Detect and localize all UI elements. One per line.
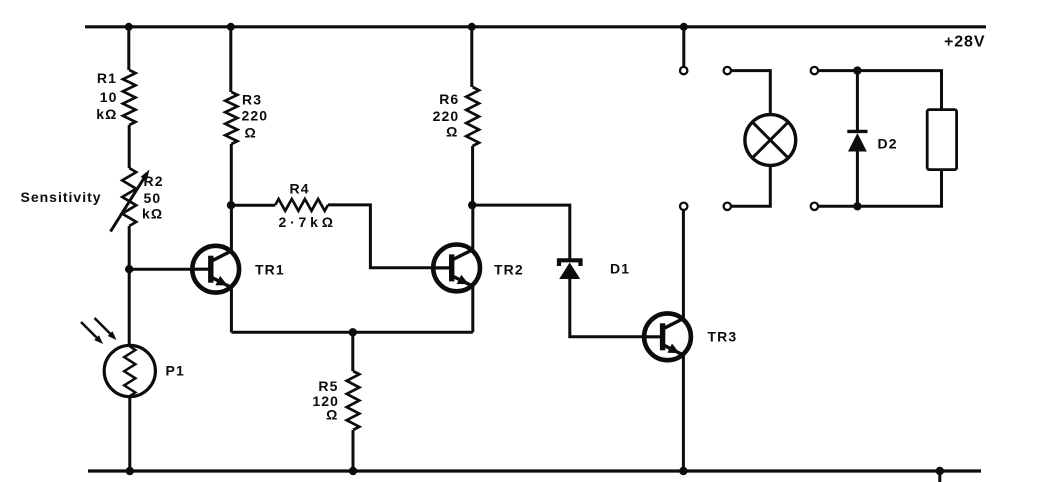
wire R2 to P1, node at TR1 base	[128, 226, 131, 346]
transistor TR1 collector lead	[212, 251, 231, 261]
wire emitter bus TR1-TR2	[231, 331, 472, 334]
svg-text:kΩ: kΩ	[142, 206, 163, 222]
junction R6/TR2-collector/D1	[468, 201, 476, 209]
wire R5 to bottom rail	[352, 430, 355, 471]
diode D2 cathode bar	[847, 130, 867, 133]
transistor TR2 base bar	[433, 266, 452, 269]
wire D1 to TR3 base	[570, 277, 644, 337]
transistor TR1 body circle	[192, 246, 239, 293]
wire bottom-right stub going down	[938, 471, 941, 482]
terminal circle top left	[680, 67, 687, 74]
transistor TR2 body circle	[433, 245, 480, 292]
svg-text:10: 10	[100, 89, 118, 105]
svg-text:50: 50	[144, 190, 162, 206]
resistor R2 variable zigzag	[122, 168, 136, 226]
wire TR1 collector to R4 node	[230, 205, 233, 252]
wire TR2 collector up	[471, 205, 474, 251]
resistor R6 zigzag	[466, 87, 479, 146]
junction bottom rail / P1	[126, 467, 134, 475]
svg-text:R3: R3	[242, 92, 262, 108]
transistor TR3 base bar	[644, 335, 663, 338]
svg-text:Ω: Ω	[245, 125, 257, 141]
svg-text:R5: R5	[318, 378, 338, 394]
svg-text:+28V: +28V	[944, 34, 985, 51]
load box (relay coil)	[927, 110, 956, 170]
transistor TR3 body circle	[644, 313, 691, 360]
svg-text:D1: D1	[610, 261, 630, 277]
wire TR1 base lead	[129, 268, 192, 271]
photocell P1 circle	[104, 345, 155, 396]
junction emitter bus / R5	[349, 328, 357, 336]
svg-text:Ω: Ω	[446, 124, 458, 140]
svg-text:P1: P1	[166, 363, 185, 379]
wire +28V top supply rail	[85, 25, 986, 28]
resistor R3 zigzag	[225, 92, 237, 144]
wire box bottom / branch bottom	[818, 170, 941, 207]
diode D1 cathode bar	[559, 260, 581, 266]
terminal circle D2 branch bottom	[811, 203, 818, 210]
wire to D2	[856, 71, 859, 130]
wire TR2 emitter down	[471, 285, 474, 332]
wire node to D1	[472, 205, 570, 259]
wire rail to R6	[470, 27, 473, 87]
terminal circle D2 branch top	[811, 67, 818, 74]
wire TR3 emitter to bottom rail	[682, 354, 685, 471]
svg-text:TR3: TR3	[708, 329, 738, 345]
wire rail to R3	[229, 27, 232, 92]
photocell P1 light arrow 2	[95, 318, 112, 335]
junction top rail / R1	[125, 23, 133, 31]
svg-text:TR1: TR1	[255, 262, 285, 278]
junction D2 bottom	[853, 202, 861, 210]
terminal circle bottom lamp side	[724, 203, 731, 210]
transistor TR2 emitter lead with arrow	[453, 276, 473, 286]
junction bottom rail / TR3 emitter	[679, 467, 687, 475]
svg-text:R4: R4	[290, 181, 310, 197]
wire TR1 emitter down	[230, 287, 233, 333]
svg-text:R2: R2	[144, 173, 164, 189]
node junction R2/P1/TR1-base	[125, 265, 133, 273]
lamp bulb circle with cross	[745, 115, 796, 166]
wire lamp top lead	[731, 71, 770, 115]
wire bus to R5	[351, 332, 354, 371]
junction D2 top	[853, 66, 861, 74]
svg-text:D2: D2	[878, 136, 898, 152]
transistor TR3 emitter lead with arrow	[664, 345, 683, 355]
svg-text:R1: R1	[97, 70, 117, 86]
svg-text:220: 220	[433, 108, 460, 124]
junction bottom rail / R5	[349, 467, 357, 475]
svg-text:2·7kΩ: 2·7kΩ	[279, 214, 337, 230]
wire between R1 and R2	[128, 125, 131, 168]
svg-text:Sensitivity: Sensitivity	[21, 189, 102, 205]
svg-text:R6: R6	[439, 91, 459, 107]
transistor TR3 collector lead	[664, 319, 683, 329]
wire R6 to collector node	[471, 146, 474, 205]
wire TR3 collector up to terminal	[682, 211, 685, 320]
wire D2 branch top	[818, 71, 941, 110]
wire D2 to bottom	[856, 150, 859, 206]
transistor TR1 emitter lead with arrow	[212, 278, 231, 288]
wire rail down to top-left terminal	[682, 27, 685, 67]
photocell P1 inner zigzag	[124, 347, 135, 397]
junction top rail / lamp branch	[680, 23, 688, 31]
svg-text:kΩ: kΩ	[96, 106, 117, 122]
diode D1 triangle	[559, 263, 580, 280]
resistor R4 zigzag	[275, 199, 328, 211]
wire lamp bottom lead	[731, 165, 770, 206]
transistor TR2 collector lead	[453, 250, 473, 260]
svg-text:220: 220	[242, 108, 269, 124]
junction top rail / R6	[468, 23, 476, 31]
wire R3 to R4 node	[230, 144, 233, 205]
wire left branch top (rail to R1)	[127, 27, 130, 70]
terminal circle bottom left	[680, 203, 687, 210]
wire 0V bottom rail	[88, 469, 981, 472]
junction top rail / R3	[227, 23, 235, 31]
wire R4 right lead to TR2 base	[328, 205, 433, 268]
resistor R1 zigzag	[123, 70, 136, 125]
junction R3/R4/TR1 collector	[227, 201, 235, 209]
junction bottom rail / stub	[936, 467, 944, 475]
resistor R5 zigzag	[347, 371, 360, 430]
svg-text:Ω: Ω	[326, 407, 338, 423]
transistor TR1 base bar	[192, 268, 211, 271]
svg-text:TR2: TR2	[494, 262, 524, 278]
resistor R2 wiper arrow	[111, 175, 147, 232]
diode D2 triangle	[848, 133, 867, 152]
wire P1 to bottom rail	[128, 397, 131, 472]
photocell P1 light arrow 1	[81, 322, 98, 339]
terminal circle top lamp side	[724, 67, 731, 74]
wire R4 left lead	[231, 204, 275, 207]
